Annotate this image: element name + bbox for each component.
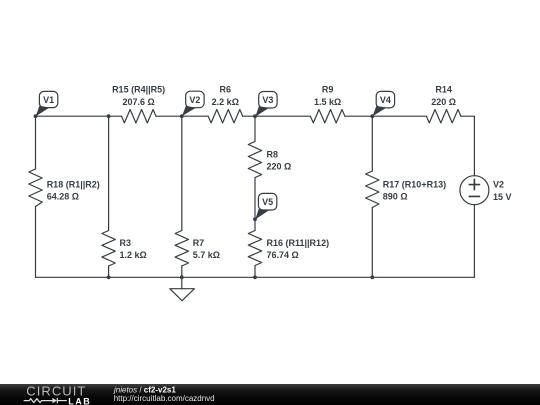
svg-text:R16 (R11||R12): R16 (R11||R12) — [267, 238, 330, 248]
svg-text:R15 (R4||R5): R15 (R4||R5) — [112, 85, 165, 95]
svg-text:V4: V4 — [380, 95, 391, 105]
svg-text:R6: R6 — [220, 85, 232, 95]
svg-text:R3: R3 — [120, 238, 132, 248]
svg-text:R17 (R10+R13): R17 (R10+R13) — [383, 180, 446, 190]
svg-text:64.28 Ω: 64.28 Ω — [47, 192, 79, 202]
svg-text:LAB: LAB — [68, 396, 91, 405]
svg-text:R14: R14 — [435, 85, 452, 95]
svg-text:V2: V2 — [189, 95, 200, 105]
svg-text:220 Ω: 220 Ω — [267, 162, 292, 172]
svg-text:V2: V2 — [493, 180, 504, 190]
svg-text:http://circuitlab.com/cazdnvd: http://circuitlab.com/cazdnvd — [114, 394, 215, 403]
svg-text:1.5 kΩ: 1.5 kΩ — [314, 97, 341, 107]
svg-text:V5: V5 — [262, 197, 273, 207]
svg-text:2.2 kΩ: 2.2 kΩ — [212, 97, 239, 107]
svg-text:15 V: 15 V — [493, 192, 512, 202]
svg-text:76.74 Ω: 76.74 Ω — [267, 250, 299, 260]
svg-text:R8: R8 — [267, 150, 279, 160]
svg-text:1.2 kΩ: 1.2 kΩ — [120, 250, 147, 260]
svg-text:V1: V1 — [43, 95, 54, 105]
svg-text:890 Ω: 890 Ω — [383, 192, 408, 202]
svg-text:R9: R9 — [322, 85, 334, 95]
svg-text:220 Ω: 220 Ω — [431, 97, 456, 107]
svg-text:5.7 kΩ: 5.7 kΩ — [193, 250, 220, 260]
svg-text:R7: R7 — [193, 238, 205, 248]
svg-text:V3: V3 — [262, 95, 273, 105]
svg-text:R18 (R1||R2): R18 (R1||R2) — [47, 180, 100, 190]
svg-text:207.6 Ω: 207.6 Ω — [122, 97, 154, 107]
